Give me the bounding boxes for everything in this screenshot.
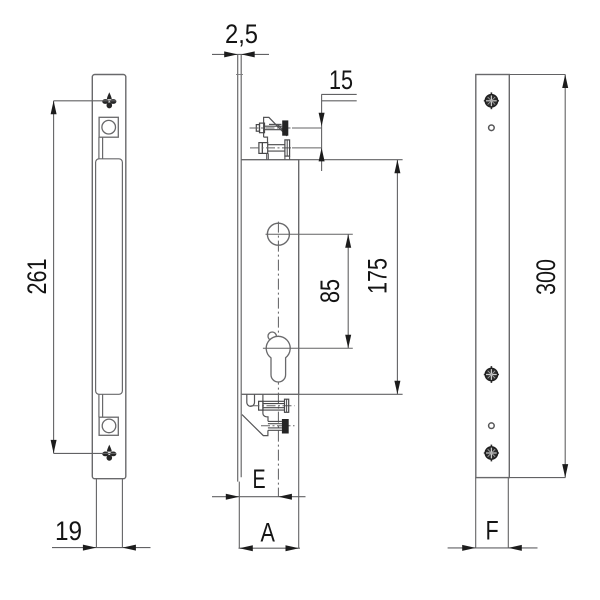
top bolt body <box>268 145 285 151</box>
bottom bracket outline <box>242 394 268 435</box>
svg-text:19: 19 <box>55 517 82 546</box>
top bracket outline <box>264 117 287 142</box>
bottom lower bolt body <box>268 421 282 430</box>
left view bottom strip <box>99 394 103 417</box>
dimension 300 line <box>564 75 566 478</box>
dimension 15 shelf <box>321 94 356 171</box>
svg-text:2,5: 2,5 <box>225 20 258 50</box>
bottom lower bolt dark head <box>282 419 289 434</box>
svg-text:85: 85 <box>316 279 346 303</box>
euro cylinder keyhole <box>266 336 290 382</box>
bottom upper bolt head left <box>259 401 263 410</box>
dimension 261 extension bottom <box>54 452 116 454</box>
right view screw 1 <box>484 92 499 109</box>
left view top roller circle <box>102 120 116 134</box>
dimension E line <box>212 496 306 498</box>
right view hole 1 <box>489 125 495 131</box>
dimension 19 line <box>52 547 151 549</box>
left view top roller box <box>99 117 118 137</box>
middle faceplate top tick <box>236 74 243 76</box>
right view screw 2 <box>484 366 499 383</box>
dimension F extension lines <box>476 478 509 549</box>
left view outer plate <box>92 75 126 479</box>
bottom upper bolt body <box>263 401 285 410</box>
left view top screw <box>102 92 116 108</box>
top screw dark nut <box>282 120 288 135</box>
dimension 175 line <box>396 160 398 395</box>
bottom upper bolt centerline <box>251 405 295 407</box>
right view top edge extension <box>509 74 565 76</box>
svg-text:F: F <box>486 516 499 546</box>
E extension line <box>238 482 240 549</box>
middle faceplate edge (2.5 thick) <box>238 54 242 481</box>
dimension 2,5 line <box>212 53 269 55</box>
keyhole bump <box>268 332 276 340</box>
right view plate <box>476 75 510 478</box>
svg-text:E: E <box>253 465 266 495</box>
cylinder axis centerline <box>277 222 279 497</box>
right view screw 3 <box>484 445 499 462</box>
dimension 85 line <box>347 234 349 348</box>
left view bottom roller circle <box>102 419 116 433</box>
bottom bracket U tab <box>247 394 255 406</box>
svg-text:A: A <box>261 518 276 548</box>
top screw head <box>256 123 264 133</box>
top bolt head left <box>259 143 268 154</box>
svg-text:300: 300 <box>532 259 562 295</box>
right view hole 2 <box>489 423 495 429</box>
case bottom edge extension to 175 dim <box>299 393 403 395</box>
dimension 19 extension lines <box>96 479 122 548</box>
bottom upper bolt flange <box>285 399 289 412</box>
top bolt centerline <box>250 147 292 149</box>
left view inner faceplate <box>96 159 123 394</box>
svg-text:261: 261 <box>23 258 53 294</box>
A right extension line <box>298 394 300 548</box>
dimension A line <box>239 547 301 549</box>
bottom lower bolt centerline <box>261 425 295 427</box>
middle lock case <box>241 160 299 395</box>
top bolt flange right <box>285 140 290 156</box>
keyhole horizontal centerline / 85 extension <box>263 347 353 349</box>
left view bottom screw <box>102 445 116 461</box>
left view top strip <box>99 137 103 159</box>
dimension 261 extension top <box>54 100 116 102</box>
handle hole circle <box>267 223 289 245</box>
top screw centerline <box>250 127 293 129</box>
dimension 261 line <box>53 101 55 454</box>
dimension F line <box>448 547 538 549</box>
handle hole horizontal centerline / 85 extension <box>266 233 353 235</box>
svg-text:175: 175 <box>363 258 393 294</box>
top bracket feet <box>267 153 290 159</box>
svg-text:15: 15 <box>329 66 353 96</box>
left view bottom roller box <box>99 417 118 435</box>
top screw shaft <box>265 126 283 130</box>
right view bottom edge extension <box>509 477 565 479</box>
case top edge extension to 175 dim <box>299 159 403 161</box>
